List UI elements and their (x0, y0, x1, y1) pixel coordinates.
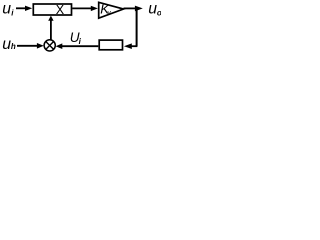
wire multiplier to amplifier with arrow (72, 6, 98, 11)
wire input arrow into multiplier block (16, 6, 32, 11)
wire u_h arrow into circle (17, 43, 44, 49)
wire amplifier output arrow to u_o (124, 6, 143, 12)
multiplier circle with X (44, 40, 55, 51)
svg-text:h: h (11, 42, 16, 51)
svg-text:u: u (2, 36, 11, 53)
feedback block rectangle (99, 40, 122, 50)
wire block to multiplier circle with arrow (56, 43, 99, 49)
svg-text:u: u (148, 0, 157, 17)
node u_h input label (2, 36, 16, 53)
svg-text:u: u (2, 0, 11, 17)
svg-text:i: i (79, 37, 82, 46)
node U_i label on feedback wire (70, 30, 82, 46)
node u_i input label (2, 0, 14, 17)
svg-text:X: X (56, 3, 65, 17)
wire feedback tap vertical from output down (136, 8, 138, 46)
svg-text:o: o (157, 8, 161, 17)
op-amp K amplifier triangle (99, 2, 124, 19)
wire feedback bottom with arrow into block (124, 43, 137, 49)
wire circle up into multiplier block with arrow (48, 16, 53, 40)
multiplier block X (33, 3, 71, 17)
node u_o output label (148, 0, 162, 17)
svg-text:v: v (107, 10, 111, 17)
svg-text:i: i (11, 8, 14, 17)
